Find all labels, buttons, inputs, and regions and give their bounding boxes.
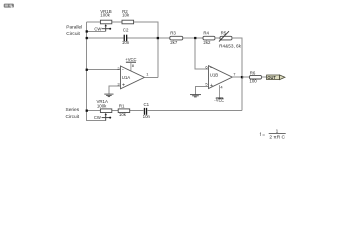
ground (U1B pin5): [190, 95, 201, 97]
svg-text:OUT: OUT: [267, 75, 276, 80]
capacitor C1: [143, 102, 151, 119]
svg-text:C1: C1: [143, 102, 149, 107]
resistor R1: [118, 103, 130, 117]
svg-text:10k: 10k: [119, 112, 127, 117]
potentiometer VR1B: [94, 9, 111, 32]
wire: pin6 from R3/R4 node: [195, 39, 208, 69]
svg-text:C2: C2: [123, 27, 129, 32]
wire: pin2 from rail: [87, 69, 121, 71]
wire: VR1B wiper tie to rail: [87, 30, 106, 32]
wire: series branch y=110.6 (rail to VR1A, to R1, to C1, to vertical B): [87, 110, 242, 112]
resistor R6: [249, 71, 261, 84]
svg-text:R4&53, 6k: R4&53, 6k: [219, 44, 242, 49]
logo badge: [4, 4, 14, 8]
svg-text:10k: 10k: [122, 13, 130, 18]
wire: R3 to node to R4: [183, 37, 203, 39]
svg-text:10n: 10n: [143, 114, 151, 119]
svg-text:Circuit: Circuit: [66, 114, 80, 120]
junction: rail / C2 wire: [86, 37, 88, 39]
ground (U1A pin3): [104, 94, 113, 97]
potentiometer VR1A: [94, 99, 112, 121]
svg-text:-: -: [210, 65, 212, 71]
wire: R6 to OUT connector: [262, 76, 267, 78]
op-amp U1B triangle: [209, 66, 233, 89]
svg-text:Parallel: Parallel: [66, 25, 82, 31]
op-amp U1A triangle: [121, 66, 145, 89]
svg-text:CW: CW: [94, 115, 101, 120]
resistor R5 (preset, with diagonal set-stroke): [219, 31, 232, 42]
wire: pin3 stub: [109, 86, 121, 94]
svg-text:100k: 100k: [97, 103, 107, 108]
svg-text:100k: 100k: [100, 13, 110, 18]
svg-text:-: -: [122, 67, 124, 73]
svg-text:+VCC: +VCC: [125, 57, 136, 62]
svg-text:R6: R6: [250, 71, 256, 76]
svg-text:100: 100: [249, 78, 257, 83]
wire: R4 to R5: [215, 37, 220, 39]
junction: rail / pin2 wire: [86, 69, 88, 71]
wire: left rail (input virtual-ground bus): [87, 22, 106, 121]
svg-text:Circuit: Circuit: [66, 31, 80, 37]
svg-text:2k2: 2k2: [203, 40, 211, 45]
op-amp U1A: [86, 57, 158, 97]
wire: output node to R6: [242, 76, 250, 78]
resistor R2: [122, 9, 134, 24]
junction: node U1A output / C2 / R3: [157, 37, 159, 39]
formula f = 1/(2 pi R C): [260, 129, 286, 141]
svg-text:f =: f =: [260, 132, 266, 138]
junction: output node: [241, 76, 243, 78]
wire: mid branch y=38 (rail to C2, C2 to node, node to R3): [87, 37, 170, 39]
capacitor C2: [122, 27, 130, 45]
power -VEE pin 4: [214, 84, 224, 102]
svg-text:R1: R1: [119, 103, 125, 108]
svg-text:R3: R3: [170, 31, 176, 36]
svg-text:-VEE: -VEE: [214, 97, 224, 102]
annotation: Series Circuit: [66, 107, 80, 120]
wire: top branch y=22 (rail to VR1B, VR1B to R2, R2 to corner, down vertical A): [87, 22, 158, 78]
op-amp U1B: [190, 39, 243, 102]
svg-text:+: +: [122, 82, 125, 88]
svg-text:Series: Series: [66, 107, 80, 113]
svg-text:10n: 10n: [122, 40, 130, 45]
junction: rail / wiper wire: [86, 30, 88, 32]
svg-text:U1B: U1B: [210, 72, 219, 77]
svg-text:2 πR C: 2 πR C: [269, 134, 285, 140]
power +VCC pin 8: [125, 57, 136, 71]
wire: U1B output to junction: [232, 76, 242, 78]
svg-text:R4: R4: [203, 31, 209, 36]
svg-text:+: +: [210, 83, 213, 89]
junction: rail / series branch: [86, 110, 88, 112]
svg-text:U1A: U1A: [122, 75, 131, 80]
svg-text:CW: CW: [94, 26, 101, 31]
svg-text:2k7: 2k7: [170, 40, 178, 45]
wire: R5 to corner, vertical B down to series branch: [232, 38, 242, 111]
connector OUT: [267, 75, 285, 80]
wire: U1A output to vertical A: [144, 76, 157, 78]
annotation: Parallel Circuit: [66, 25, 82, 37]
resistor R4: [203, 31, 215, 46]
wire: pin5 stub: [195, 86, 208, 94]
junction: inverting node of U1B: [194, 37, 196, 39]
resistor R3: [170, 31, 183, 46]
